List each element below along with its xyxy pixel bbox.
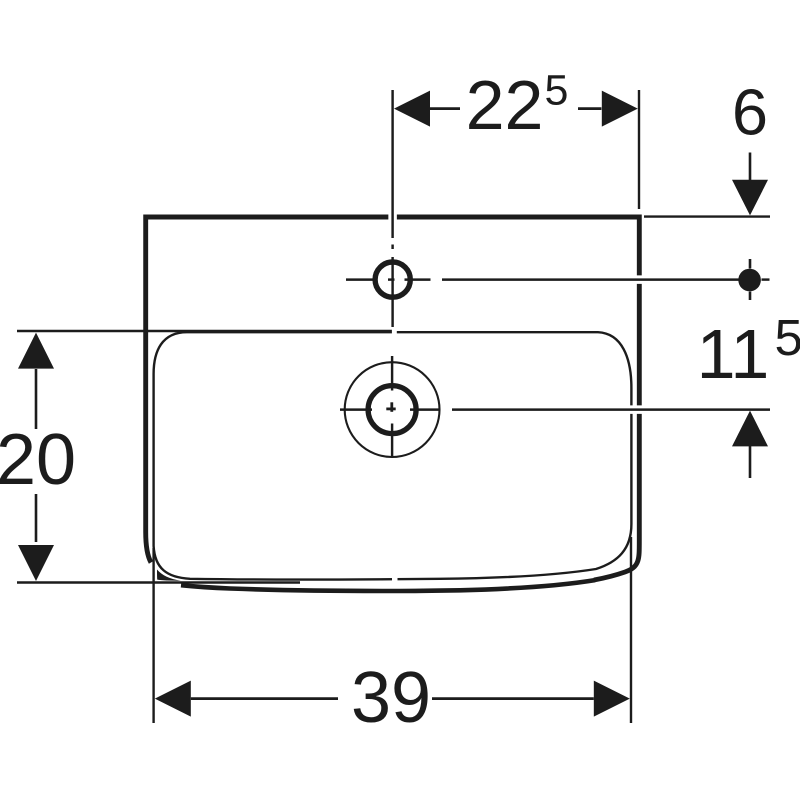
- svg-text:22: 22: [466, 66, 544, 144]
- svg-text:20: 20: [0, 420, 76, 500]
- svg-text:39: 39: [351, 658, 431, 738]
- svg-text:5: 5: [545, 67, 569, 115]
- svg-text:11: 11: [697, 315, 770, 393]
- svg-text:5: 5: [775, 309, 800, 366]
- svg-text:6: 6: [732, 76, 768, 149]
